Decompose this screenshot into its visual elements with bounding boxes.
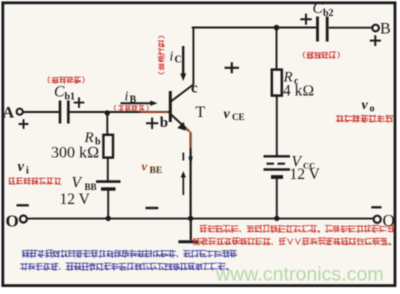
svg-text:C: C [313,0,324,17]
svg-text:b: b [160,115,168,131]
red label 待放大输入电压 [9,178,61,185]
svg-text:i: i [26,166,29,177]
polarity - at O left [17,204,29,206]
emitter current arrowhead on line [189,157,193,167]
svg-text:V: V [72,175,83,192]
polarity + at B [370,35,381,46]
wire Cb1 to base node to transistor base [70,111,170,113]
red overdraw on base wire [140,111,168,113]
polarity + at Cb2 [300,14,311,25]
polarity + at Cb1 [74,97,85,108]
wire Cb2 to B [330,27,373,29]
svg-text:www.cntronics.com: www.cntronics.com [215,264,384,286]
node base junction [105,110,110,115]
red label (隔直电容) left [48,77,84,84]
wire Rb to VBB battery [107,158,109,181]
battery VBB [96,182,121,189]
collector wire vertical [192,28,194,85]
blue note line 4: 量控制部件；还要注意三极管的放大作用是针对变化量而言的。 [20,263,228,271]
red overdraw on emitter [186,128,191,149]
battery VCC [264,156,291,177]
resistor Rb [103,135,113,158]
top wire collector to node [193,27,317,29]
emitter wire vertical [190,133,192,218]
emitter side arrow (up) [182,153,184,196]
transistor T base bar [169,91,172,122]
node VCC-rail junction [274,216,279,221]
polarity - at O right [371,206,381,208]
terminal O left circle [20,216,27,223]
current arrow iB [121,102,153,104]
node emitter-rail junction [188,216,193,221]
terminal O right circle [374,216,381,223]
red label 输出的放大电压 [336,115,393,122]
svg-text:A: A [3,104,15,121]
svg-text:BE: BE [150,166,163,176]
svg-text:B: B [130,95,137,106]
svg-text:CE: CE [232,112,245,122]
svg-text:i: i [170,50,174,65]
resistor Rc [272,70,282,96]
current arrow iC [182,46,184,75]
svg-text:12 V: 12 V [60,191,91,208]
polarity - below base [146,207,159,209]
node VBB-rail junction [106,216,111,221]
capacitor Cb2 [318,17,328,42]
svg-text:b1: b1 [65,92,76,103]
svg-text:o: o [370,104,375,115]
svg-text:v: v [142,159,148,174]
wire base node down to Rb [106,113,108,136]
transistor T emitter stroke with arrow [171,115,190,132]
svg-text:C: C [175,55,182,66]
svg-text:4 kΩ: 4 kΩ [283,83,314,100]
polarity + at base [146,118,158,129]
svg-text:v: v [362,98,369,113]
svg-text:12 V: 12 V [290,166,321,183]
svg-text:B: B [380,21,391,38]
red label (隔直电容) right [303,52,339,59]
wire VBB battery to ground wire [107,191,109,218]
red note line 2: 是该点与此点的电位差，如Vc就是集电极对此点的电压。 [193,238,391,246]
blue note line 3: 三极管的放大作用实质上是三极管的控制作用；放大器是一种能 [22,250,237,258]
svg-text:b2: b2 [323,8,334,19]
wire VCC battery to bottom rail [276,179,278,218]
capacitor Cb1 [60,101,68,124]
wire A to Cb1 [23,111,59,113]
red label (输入电流) [114,105,148,111]
ground (reference potential stub) [190,220,192,241]
wire Rc to VCC battery [276,96,278,156]
svg-text:C: C [54,84,65,101]
svg-text:O: O [6,212,19,231]
svg-text:O: O [383,211,395,230]
svg-text:c: c [191,81,198,97]
polarity + at A [19,119,29,129]
svg-text:300 kΩ: 300 kΩ [51,145,99,162]
red note line 1: 参考电位点，不是真正接到大地上。电路中各点的电位就 [200,225,394,233]
svg-text:T: T [196,104,206,121]
svg-text:v: v [224,107,231,122]
svg-text:i: i [125,90,129,105]
terminal B circle [372,25,379,32]
transistor T collector stroke [171,85,194,102]
node collector/Rc junction [274,25,280,31]
polarity + (vCE) [225,62,240,73]
bottom wire (common rail) [27,218,374,220]
terminal A circle [17,109,23,115]
red label (输出电流) vertical [158,36,165,74]
wire node to Rc [276,28,278,70]
svg-text:v: v [18,159,25,175]
